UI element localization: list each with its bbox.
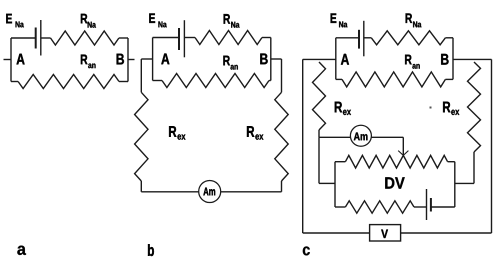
battery E_Na (b) long plate xyxy=(183,20,185,57)
resistor R_Na (a) xyxy=(51,31,119,45)
wire a top-right xyxy=(119,37,128,39)
label R_an (a) xyxy=(81,55,96,69)
wire b outer-left upper xyxy=(140,59,142,92)
resistor R_ex left (b) xyxy=(135,92,148,181)
label R_ex right (c) xyxy=(443,102,459,115)
wire c DV top-left stub xyxy=(335,161,345,163)
battery E_Na (a) long plate xyxy=(40,20,42,56)
label b xyxy=(148,244,154,256)
label node B (a) xyxy=(117,54,124,65)
label R_ex left (b) xyxy=(169,126,185,139)
resistor R_an (c) xyxy=(342,72,445,87)
wire c left side xyxy=(335,38,337,80)
wire b outer-left lower xyxy=(140,181,142,192)
wire c outer-left vertical xyxy=(302,59,304,233)
wire a battery to R_Na xyxy=(41,37,51,39)
label R_Na (c) xyxy=(406,13,422,27)
battery DV (c) short plate xyxy=(430,198,432,212)
wire c right side xyxy=(452,38,454,80)
wire c top-right xyxy=(445,37,453,39)
label R_an (b) xyxy=(223,56,237,70)
wire c DV zig to battery xyxy=(414,206,427,208)
ammeter Am (c) xyxy=(350,125,371,146)
battery E_Na (b) short plate xyxy=(178,28,180,50)
wire b bottom to ammeter xyxy=(141,191,198,193)
label R_Na (b) xyxy=(224,14,240,28)
label node A (a) xyxy=(17,54,25,65)
wire c tap down from Am-node xyxy=(318,137,320,183)
wire c DV loop left vertical xyxy=(334,162,336,207)
wire c bottom-right xyxy=(445,78,453,80)
battery E_Na (c) long plate xyxy=(363,21,365,57)
label c xyxy=(303,246,310,255)
wire c R_ex-left to Am-node xyxy=(318,130,320,137)
wire c battery to R_Na xyxy=(364,37,372,39)
label E_Na (a) xyxy=(6,14,24,28)
wire c DV top-right stub xyxy=(448,161,455,163)
label R_ex right (b) xyxy=(247,126,263,139)
wire c battery to DV right xyxy=(431,206,455,208)
label node A (c) xyxy=(341,54,349,65)
wire b top-left xyxy=(153,37,179,39)
wire c ammeter to wiper corner xyxy=(371,136,403,138)
wire node B stub (c) xyxy=(453,58,492,60)
label R_Na (a) xyxy=(81,14,96,28)
wire c bottom-left horizontal xyxy=(303,232,370,234)
wire c bottom-left xyxy=(336,78,342,80)
wire a bottom-left xyxy=(11,81,18,83)
resistor R_an (a) xyxy=(18,75,119,89)
potentiometer DV winding (c) xyxy=(345,155,447,168)
wire a top-left xyxy=(11,37,35,39)
label E_Na (b) xyxy=(149,13,166,27)
wire b bottom-left xyxy=(153,80,162,82)
wire c bottom-right horizontal xyxy=(401,232,492,234)
battery DV (c) long plate xyxy=(426,189,428,220)
wire c top-left xyxy=(336,37,358,39)
wire node A stub (b) xyxy=(141,58,152,60)
label node B (b) xyxy=(260,54,267,65)
wire b outer-right lower xyxy=(281,181,283,192)
wire b outer-right upper xyxy=(281,59,283,92)
wiper contact X (c) xyxy=(398,151,408,156)
resistor R_Na (b) xyxy=(195,31,262,45)
resistor R_ex left (c) xyxy=(313,62,326,130)
wire b right side xyxy=(270,38,272,81)
ammeter Am (b) xyxy=(199,181,221,203)
wire c outer-right vertical xyxy=(491,59,493,233)
wire b ammeter to right xyxy=(221,191,282,193)
battery E_Na (a) short plate xyxy=(35,28,37,49)
label R_an (c) xyxy=(405,55,420,69)
wire b top-right xyxy=(262,37,271,39)
wire a right side xyxy=(127,38,129,82)
node A terminal stub (a) xyxy=(4,59,12,61)
resistor DV lower (c) xyxy=(345,201,414,213)
wire b bottom-right xyxy=(269,80,271,82)
wire a bottom-right xyxy=(119,81,128,83)
wire node B stub (b) xyxy=(271,58,282,60)
wire c tap to DV loop xyxy=(319,182,335,184)
wire c DV bottom-left stub xyxy=(335,206,345,208)
voltmeter V box (c) xyxy=(370,225,401,241)
resistor R_ex right (c) xyxy=(468,62,481,152)
node B terminal stub (a) xyxy=(128,59,135,61)
stray dot (c) xyxy=(430,107,432,109)
battery E_Na (c) short plate xyxy=(358,30,360,49)
wire c DV loop right vertical xyxy=(454,162,456,207)
wire b battery to R_Na xyxy=(184,37,195,39)
label R_ex left (c) xyxy=(335,102,351,115)
wire c R_ex-right to DV loop xyxy=(455,182,474,184)
label DV (c) xyxy=(385,177,404,188)
resistor R_ex right (b) xyxy=(275,92,288,181)
wire c R_ex-right down xyxy=(473,152,475,183)
wire c wiper vertical xyxy=(402,137,404,155)
resistor R_an (b) xyxy=(162,74,269,88)
label E_Na (c) xyxy=(331,13,348,27)
wire node A stub (c) xyxy=(303,58,336,60)
label a xyxy=(17,246,26,255)
label node B (c) xyxy=(441,54,448,65)
resistor R_Na (c) xyxy=(371,31,445,45)
wire b left side xyxy=(152,38,154,81)
wire a left side xyxy=(10,38,12,82)
wire c Am-node to ammeter xyxy=(319,136,351,138)
label node A (b) xyxy=(161,54,169,65)
